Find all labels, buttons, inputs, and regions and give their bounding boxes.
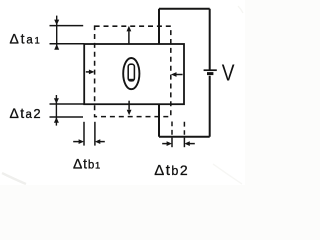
arrow shaft pointing right at dashed left edge (86, 71, 90, 73)
dim tb2 right extension line solid part (183, 138, 185, 148)
dim tb1 left extension line (83, 122, 85, 146)
electrode plate B top edge (159, 8, 210, 10)
center oval marking outer ellipse (123, 58, 139, 89)
dim tb2 left extension line dashed part (171, 122, 173, 135)
arrowhead left at dashed right edge (171, 72, 177, 77)
dim ta1 upper arrowhead (54, 20, 59, 26)
dim tb1 dimension line right part (99, 141, 105, 143)
dim tb1 left arrowhead (79, 139, 84, 144)
dim tb1 dimension line left part (73, 141, 80, 143)
arrowhead up at dashed top edge (127, 26, 132, 32)
svg-text:V: V (222, 59, 235, 85)
dim tb2 dimension line left part (162, 143, 168, 145)
wire (plate B right edge, interrupted by source V) (209, 9, 211, 137)
dim ta1 dimension line (56, 16, 58, 50)
dim tb2 right extension line dashed part (183, 122, 185, 135)
dim ta2 upper arrowhead (54, 98, 59, 104)
center oval marking inner slot (128, 64, 134, 81)
arrowhead down at dashed bottom edge (127, 110, 132, 116)
voltage source V positive plate (204, 69, 217, 71)
dashed tolerance outline rectangle (95, 26, 171, 116)
svg-text:Δtb2: Δtb2 (154, 162, 189, 179)
arrow shaft pointing up at dashed top edge (128, 31, 130, 44)
dim tb2 right arrowhead (184, 141, 189, 146)
dim tb2 dimension line right part (189, 143, 195, 145)
center oval inner slot thick base (129, 79, 134, 81)
voltage source V negative plate (207, 72, 213, 75)
dim tb1 right arrowhead (95, 139, 100, 144)
dim ta2 dimension line (55, 95, 57, 126)
dim ta2 lower arrowhead (54, 117, 59, 123)
arrowhead right at dashed left edge (89, 70, 95, 75)
arrow shaft pointing left at dashed right edge (176, 74, 182, 76)
electrode plate A (horizontal rectangle) (84, 44, 184, 104)
dim ta2 lower extension line (50, 116, 84, 118)
dim ta1 lower arrowhead (54, 44, 59, 50)
electrode plate B bottom edge (159, 136, 210, 138)
dim tb1 right extension line (94, 122, 96, 146)
dim ta2 upper extension line (50, 103, 85, 105)
dim ta1 upper extension line (50, 25, 84, 27)
dim ta1 lower extension line (50, 43, 85, 45)
arrow shaft pointing down at dashed bottom edge (128, 101, 130, 110)
dim tb2 left extension line solid part (171, 138, 173, 148)
electrode plate B left edge segments (158, 9, 160, 137)
dim tb2 left arrowhead (167, 141, 172, 146)
